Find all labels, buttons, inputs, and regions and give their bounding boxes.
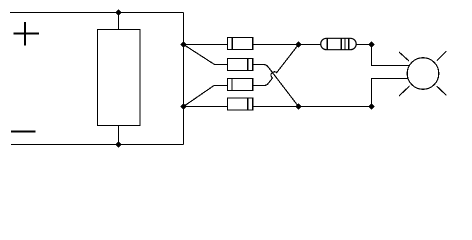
lamp ray NW	[399, 52, 409, 61]
diode D1 body	[228, 38, 253, 50]
lamp ray SE	[437, 86, 447, 95]
wire R1 bottom lead	[118, 126, 120, 145]
junction dot bottom rail	[115, 141, 121, 147]
diode D2 body	[228, 59, 253, 71]
junction dot left top	[180, 41, 186, 47]
junction dot lamp bottom	[368, 103, 374, 109]
wire D4 right lead	[253, 106, 299, 108]
lamp ray NE	[437, 51, 447, 61]
wire left vertical bus	[183, 13, 185, 145]
diode D3 cathode band	[231, 79, 233, 91]
wire negative bottom rail	[11, 144, 184, 146]
wire D3 left lead	[184, 86, 228, 107]
diode D3 body	[228, 79, 253, 91]
wire D1 right lead	[253, 44, 299, 46]
lamp LA1 bulb circle	[407, 58, 439, 90]
wire D3 output cross up with hop	[253, 45, 299, 86]
junction dot lamp top	[368, 41, 374, 47]
wire D4 left lead	[184, 106, 228, 108]
diode D4 cathode band	[247, 98, 249, 110]
wire R1 top lead	[118, 13, 120, 30]
wire lamp bottom feed	[299, 79, 411, 107]
diode D1 cathode band	[231, 38, 233, 50]
diode D4 body	[228, 98, 253, 110]
wire positive top rail	[10, 12, 184, 14]
junction dot bridge out top	[295, 41, 301, 47]
wire fuse right lead	[356, 44, 371, 46]
fuse F1 inner bands	[327, 38, 349, 49]
lamp ray SW	[399, 86, 410, 96]
wire D2 left lead	[184, 45, 228, 65]
wire D1 left lead	[184, 44, 228, 46]
plus terminal sign	[14, 22, 40, 46]
wire fuse left lead	[299, 44, 321, 46]
wire D2 output cross down	[253, 65, 299, 107]
junction dot bridge out bottom	[295, 103, 301, 109]
resistor R1 box	[98, 30, 141, 126]
fuse F1 body	[321, 38, 357, 49]
diode D2 cathode band	[247, 59, 249, 71]
junction dot top rail	[115, 9, 121, 15]
junction dot left bottom	[180, 103, 186, 109]
minus terminal sign	[11, 131, 36, 133]
wire lamp top feed	[372, 45, 411, 66]
